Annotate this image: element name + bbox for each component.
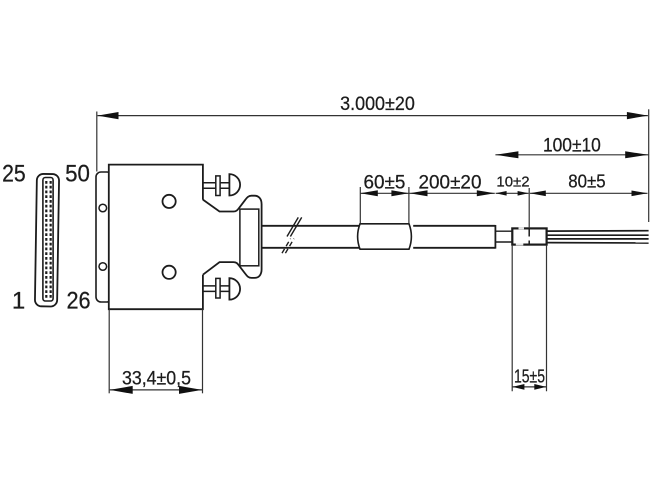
dimension 10±2	[496, 174, 530, 229]
svg-text:26: 26	[66, 288, 90, 315]
wire 2	[547, 234, 649, 236]
svg-text:80±5: 80±5	[568, 170, 605, 191]
dimension 3.000±20	[97, 94, 649, 222]
pin column left (pins 1-25)	[45, 181, 47, 298]
body hole upper	[163, 195, 176, 208]
svg-text:50: 50	[65, 161, 90, 188]
dimension 100±10	[495, 135, 648, 158]
dimension 15±5	[512, 245, 546, 391]
svg-text:200±20: 200±20	[419, 172, 482, 193]
spool inner bushing	[240, 209, 259, 266]
backshell body	[109, 165, 203, 310]
cable segment spool to sleeve	[262, 226, 360, 248]
svg-text:100±10: 100±10	[543, 135, 601, 156]
strain relief spool outline	[203, 196, 262, 278]
pin column right (pins 26-50)	[50, 181, 52, 298]
cable break mark	[282, 217, 302, 253]
stripped inner sheath	[495, 231, 512, 242]
connector face view outer shell	[35, 174, 59, 307]
dimension 60±5	[360, 172, 409, 223]
marker sleeve on cable	[358, 224, 412, 249]
svg-text:25: 25	[2, 161, 26, 188]
wire 1	[547, 230, 649, 232]
bottom clamp bar	[216, 278, 220, 298]
svg-text:60±5: 60±5	[364, 172, 406, 193]
wire 4	[547, 242, 649, 244]
flange hole upper	[99, 204, 107, 212]
top screw head	[229, 174, 240, 195]
svg-text:10±2: 10±2	[496, 174, 529, 191]
wire 3	[547, 238, 649, 240]
bottom screw head	[229, 278, 240, 299]
svg-text:15±5: 15±5	[514, 367, 545, 387]
connector face view insert	[43, 178, 53, 302]
dimension 200±20	[410, 172, 495, 196]
shield ferrule	[512, 228, 546, 244]
top clamp bar	[216, 176, 220, 196]
cable segment sleeve to jacket end	[413, 226, 495, 248]
bottom clamp screw shaft	[203, 286, 230, 292]
body hole lower	[163, 266, 176, 279]
dimension 33,4±0,5	[109, 309, 202, 394]
flange hole lower	[99, 263, 107, 271]
svg-text:3.000±20: 3.000±20	[340, 94, 415, 115]
svg-text:1: 1	[12, 288, 25, 315]
backshell flange	[96, 172, 112, 302]
top clamp screw shaft	[203, 183, 230, 189]
ferrule hidden mid line	[528, 230, 530, 244]
svg-text:33,4±0,5: 33,4±0,5	[122, 369, 191, 390]
ferrule notch bottom	[516, 243, 524, 245]
cable jacket end edge	[494, 225, 496, 249]
dimension 80±5	[530, 170, 648, 196]
ferrule notch top	[519, 227, 525, 229]
